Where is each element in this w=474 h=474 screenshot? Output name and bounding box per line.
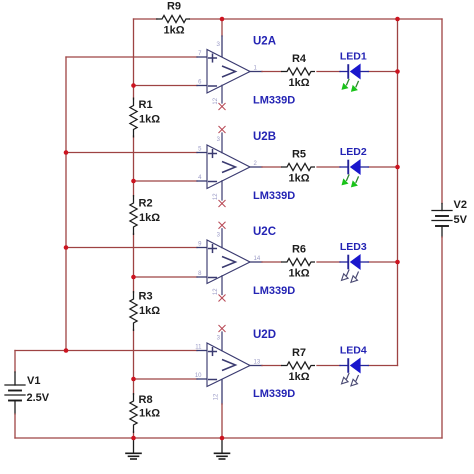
wire V2 bottom lead bbox=[441, 226, 443, 438]
svg-text:1kΩ: 1kΩ bbox=[139, 114, 160, 126]
svg-text:1kΩ: 1kΩ bbox=[288, 173, 309, 185]
svg-text:V1: V1 bbox=[27, 375, 40, 387]
node LED2 to bus bbox=[395, 165, 400, 170]
pin 10 label U2D bbox=[195, 373, 202, 379]
svg-text:LM339D: LM339D bbox=[253, 190, 295, 202]
svg-text:U2D: U2D bbox=[253, 329, 276, 341]
svg-text:2.5V: 2.5V bbox=[27, 392, 50, 404]
wire R to LED row U2D bbox=[317, 365, 340, 367]
pin 2 label U2B bbox=[254, 161, 258, 167]
wire V1 to U2D plus input bbox=[15, 350, 208, 352]
pin 4 label U2B bbox=[198, 175, 202, 181]
wire U2B output bbox=[250, 166, 281, 168]
wire top rail R9 to U2A power node bbox=[190, 18, 223, 20]
wire top rail to right bbox=[222, 18, 398, 20]
wire U2C plus input bbox=[66, 247, 208, 249]
svg-text:12: 12 bbox=[214, 393, 220, 400]
op-amp U2B LM339D comparator bbox=[207, 145, 250, 189]
node ladder bottom bbox=[131, 436, 136, 441]
svg-text:12: 12 bbox=[213, 97, 219, 104]
svg-text:LM339D: LM339D bbox=[253, 95, 295, 107]
pin 3 label U2C bbox=[217, 233, 221, 239]
wire ladder R3-R8 segment bbox=[133, 330, 135, 395]
svg-text:1kΩ: 1kΩ bbox=[139, 408, 160, 420]
wire ladder top segment bbox=[133, 19, 135, 99]
label LM339D of U2D bbox=[253, 388, 295, 400]
resistor R8 1k bbox=[130, 393, 160, 433]
wire U2A plus input bbox=[66, 56, 208, 58]
battery V2 5V bbox=[432, 199, 468, 226]
wire LED to bus row U2A bbox=[368, 71, 397, 73]
wire U2D output bbox=[250, 365, 281, 367]
wire U2A power pin bbox=[221, 19, 223, 57]
node ladder R8 top bbox=[131, 377, 136, 382]
node left bus U2B plus bbox=[64, 150, 69, 155]
battery V1 2.5V bbox=[5, 375, 50, 404]
node LED bus top bbox=[395, 17, 400, 22]
wire R to LED row U2B bbox=[317, 166, 340, 168]
wire top rail left of R9 bbox=[134, 18, 158, 20]
svg-text:U2A: U2A bbox=[253, 36, 276, 48]
node LED3 to bus bbox=[395, 260, 400, 265]
wire LED to bus row U2C bbox=[368, 261, 397, 263]
svg-text:5V: 5V bbox=[454, 214, 468, 226]
pin 3 label U2D bbox=[217, 336, 221, 342]
resistor R1 1k bbox=[130, 98, 160, 138]
svg-text:1kΩ: 1kΩ bbox=[139, 212, 160, 224]
pin 12 label U2A bbox=[213, 97, 219, 104]
op-amp U2A LM339D comparator bbox=[207, 50, 250, 94]
svg-text:LED4: LED4 bbox=[340, 345, 367, 357]
wire U2D minus input bbox=[134, 378, 208, 380]
label LM339D of U2C bbox=[253, 285, 295, 297]
svg-text:11: 11 bbox=[195, 345, 202, 351]
svg-text:1kΩ: 1kΩ bbox=[163, 25, 184, 37]
svg-text:R2: R2 bbox=[139, 198, 153, 210]
wire V2 top lead bbox=[441, 19, 443, 211]
wire R to LED row U2A bbox=[317, 71, 340, 73]
wire V1 bottom lead bbox=[14, 401, 16, 439]
svg-text:1kΩ: 1kΩ bbox=[288, 77, 309, 89]
label U2B bbox=[253, 131, 276, 143]
svg-text:R4: R4 bbox=[292, 53, 307, 65]
label U2D bbox=[253, 329, 276, 341]
node U2D ground on bottom rail bbox=[220, 436, 225, 441]
svg-text:1kΩ: 1kΩ bbox=[288, 371, 309, 383]
pin 1 label U2A bbox=[254, 66, 258, 72]
resistor R9 1k bbox=[156, 1, 190, 37]
resistor R4 1k bbox=[281, 53, 315, 89]
pin 5 label U2B bbox=[198, 147, 202, 153]
resistor R2 1k bbox=[130, 195, 160, 235]
svg-text:R7: R7 bbox=[292, 347, 306, 359]
label LM339D of U2A bbox=[253, 95, 295, 107]
LED1 (lit) bbox=[340, 51, 368, 92]
svg-text:10: 10 bbox=[195, 373, 202, 379]
node ladder R1 top bbox=[131, 83, 136, 88]
svg-text:R8: R8 bbox=[139, 394, 153, 406]
svg-text:LED1: LED1 bbox=[340, 51, 367, 63]
ground under R8 bbox=[126, 438, 141, 459]
svg-text:R5: R5 bbox=[292, 149, 306, 161]
wire LED to bus row U2B bbox=[368, 166, 397, 168]
wire U2B plus input bbox=[66, 152, 208, 154]
LED4 (off) bbox=[340, 345, 368, 386]
unconnected ground pin 12 of U2B bbox=[219, 181, 226, 207]
label LM339D of U2B bbox=[253, 190, 295, 202]
pin 6 label U2A bbox=[198, 80, 202, 86]
svg-text:R3: R3 bbox=[139, 291, 153, 303]
wire U2A minus input bbox=[134, 85, 208, 87]
svg-text:3: 3 bbox=[216, 41, 220, 48]
LED3 (off) bbox=[340, 241, 368, 282]
node LED1 to bus bbox=[395, 69, 400, 74]
op-amp U2C LM339D comparator bbox=[207, 240, 250, 284]
resistor R3 1k bbox=[130, 291, 160, 332]
pin 8 label U2C bbox=[198, 271, 202, 277]
svg-text:LED3: LED3 bbox=[340, 241, 367, 253]
wire U2C minus input bbox=[134, 276, 208, 278]
unconnected power pin 3 of U2D bbox=[219, 325, 226, 351]
wire LED to bus row U2D bbox=[368, 365, 397, 367]
svg-text:1kΩ: 1kΩ bbox=[139, 305, 160, 317]
wire U2B minus input bbox=[134, 180, 208, 182]
label U2C bbox=[253, 226, 276, 238]
svg-text:LM339D: LM339D bbox=[253, 285, 295, 297]
node ladder R3 top bbox=[131, 275, 136, 280]
unconnected power pin 3 of U2B bbox=[219, 126, 226, 153]
node U2A power on top rail bbox=[220, 17, 225, 22]
svg-text:V2: V2 bbox=[454, 199, 467, 211]
pin 3 label U2B bbox=[217, 137, 221, 143]
svg-text:U2C: U2C bbox=[253, 226, 276, 238]
pin 12 label U2B bbox=[213, 193, 219, 200]
svg-text:U2B: U2B bbox=[253, 131, 276, 143]
wire U2C output bbox=[250, 261, 281, 263]
pin 3 label U2A bbox=[216, 41, 220, 48]
wire V1 top lead bbox=[14, 351, 16, 386]
svg-text:R6: R6 bbox=[292, 244, 306, 256]
pin 13 label U2D bbox=[254, 360, 261, 366]
wire top rail to far right corner bbox=[398, 18, 443, 20]
svg-text:13: 13 bbox=[254, 360, 261, 366]
wire LED bus vertical bbox=[397, 19, 399, 366]
unconnected ground pin 12 of U2A bbox=[219, 85, 226, 110]
node left bus U2C plus bbox=[64, 245, 69, 250]
resistor R6 1k bbox=[281, 244, 315, 280]
resistor R7 1k bbox=[281, 347, 315, 383]
node V1 to left bus bbox=[64, 348, 69, 353]
wire ladder R2-R3 segment bbox=[133, 234, 135, 293]
wire ladder bottom stub bbox=[133, 432, 135, 439]
svg-text:14: 14 bbox=[254, 256, 261, 262]
svg-text:1kΩ: 1kΩ bbox=[288, 268, 309, 280]
node ladder R2 top bbox=[131, 179, 136, 184]
svg-text:R9: R9 bbox=[167, 1, 181, 13]
svg-text:R1: R1 bbox=[139, 99, 153, 111]
wire R to LED row U2C bbox=[317, 261, 340, 263]
svg-text:12: 12 bbox=[213, 288, 219, 295]
pin 12 label U2C bbox=[213, 288, 219, 295]
pin 11 label U2D bbox=[195, 345, 202, 351]
wire bottom rail bbox=[15, 437, 442, 439]
wire U2D ground pin bbox=[221, 379, 223, 438]
pin 7 label U2A bbox=[198, 51, 202, 57]
op-amp U2D LM339D comparator bbox=[207, 343, 250, 387]
ground under U2D pin 12 bbox=[215, 438, 230, 459]
wire ladder R1-R2 segment bbox=[133, 136, 135, 196]
label U2A bbox=[253, 36, 276, 48]
resistor R5 1k bbox=[281, 149, 315, 185]
unconnected power pin 3 of U2C bbox=[219, 222, 226, 248]
svg-text:LM339D: LM339D bbox=[253, 388, 295, 400]
pin 14 label U2C bbox=[254, 256, 261, 262]
svg-text:12: 12 bbox=[213, 193, 219, 200]
pin 9 label U2C bbox=[198, 242, 202, 248]
wire U2A output bbox=[250, 71, 281, 73]
wire left bus bbox=[65, 57, 67, 351]
LED2 (lit) bbox=[340, 146, 368, 187]
pin 12 label U2D bbox=[214, 393, 220, 400]
unconnected ground pin 12 of U2C bbox=[219, 276, 226, 302]
svg-text:LED2: LED2 bbox=[340, 146, 367, 158]
